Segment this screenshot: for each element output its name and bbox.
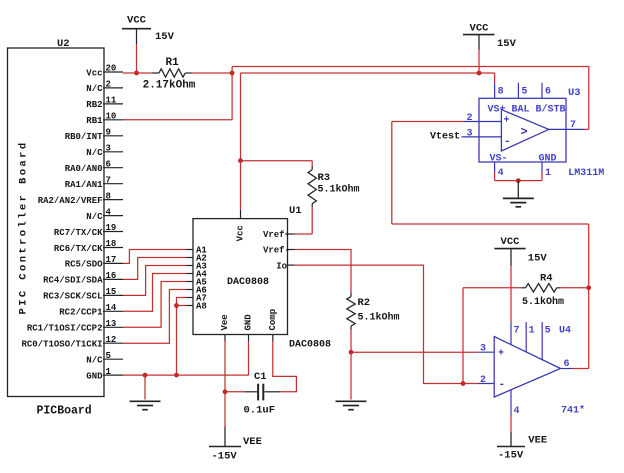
node X junction R1/RB1/comparator-output <box>230 71 235 76</box>
U1 Vcc pin stub <box>240 210 242 219</box>
U4 pin 3 stub+number <box>478 344 494 355</box>
svg-text:RC0/T1OSO/T1CKI: RC0/T1OSO/T1CKI <box>21 340 102 350</box>
wire down right edge to U3 pin 7 <box>588 67 590 130</box>
svg-text:VCC: VCC <box>127 15 147 27</box>
wire ground stem under R2 <box>350 352 352 399</box>
wire Vcc pin20 to R1 left <box>123 72 152 74</box>
svg-text:C1: C1 <box>254 371 267 383</box>
svg-text:LM311M: LM311M <box>568 168 604 179</box>
wire VCC2 corner down to U3 pin 8 <box>494 73 496 83</box>
U2 pin 5 N/C <box>86 351 123 366</box>
U1 pin Vref+ stub+label <box>263 230 295 240</box>
svg-text:5.1kOhm: 5.1kOhm <box>522 296 564 308</box>
U1 pin A2 stub+label <box>187 254 207 264</box>
U4 pin 1 line+number <box>526 322 534 352</box>
svg-text:RC7/TX/CK: RC7/TX/CK <box>54 228 103 238</box>
wire RC4 to A2 <box>123 258 187 280</box>
U2 pin 6 RA0/AN0 <box>65 159 123 174</box>
U2 pin 8 RA2/AN2/VREF <box>38 191 123 206</box>
svg-text:RC4/SDI/SDA: RC4/SDI/SDA <box>43 276 103 286</box>
svg-text:1: 1 <box>106 367 112 377</box>
wire node X down to RB1 wire <box>231 73 233 120</box>
node junction R4 left / U4 pin2 <box>461 381 466 386</box>
U2 pin 17 RC5/SDO <box>65 255 123 270</box>
svg-text:741*: 741* <box>561 405 585 417</box>
svg-text:15V: 15V <box>497 38 517 50</box>
svg-text:N/C: N/C <box>86 356 103 366</box>
U1 pin Io stub+label <box>276 261 295 271</box>
svg-text:R2: R2 <box>358 297 371 309</box>
wire VCC2 net vertical at x=240.5 <box>240 73 242 161</box>
U3 pin 3 stub+number <box>462 129 502 140</box>
wire R3 bottom to Vref+ corner <box>311 207 313 234</box>
svg-text:+: + <box>504 116 510 127</box>
svg-text:1: 1 <box>529 325 535 336</box>
wire down at x=391.8 <box>391 122 393 225</box>
svg-text:15: 15 <box>106 287 117 297</box>
wire across to right edge <box>392 223 589 225</box>
svg-text:1: 1 <box>545 168 551 179</box>
svg-text:18: 18 <box>106 239 117 249</box>
wire junction to R3 top <box>241 160 313 162</box>
U1 pin A7 stub+label <box>187 294 207 304</box>
U3 triangle symbol <box>501 110 548 151</box>
svg-text:-: - <box>504 136 511 148</box>
svg-text:5.1kOhm: 5.1kOhm <box>358 312 400 324</box>
wire up to U1 GND pin <box>248 341 250 375</box>
wire Vref- to R2 top <box>295 250 351 293</box>
U1 pin A1 stub+label <box>187 246 208 256</box>
svg-text:Comp: Comp <box>268 309 278 331</box>
svg-text:RC6/TX/CK: RC6/TX/CK <box>54 244 103 254</box>
wire into Vref+ pin <box>295 233 312 235</box>
svg-text:2: 2 <box>480 375 486 386</box>
svg-text:N/C: N/C <box>86 148 103 158</box>
wire A8 stub to ground-tie <box>177 305 187 307</box>
svg-text:9: 9 <box>106 128 111 138</box>
svg-text:RC1/T1OSI/CCP2: RC1/T1OSI/CCP2 <box>27 324 103 334</box>
svg-text:19: 19 <box>106 223 117 233</box>
wire RC3 to A3 <box>123 266 187 296</box>
PIC controller board U2 box <box>8 48 105 397</box>
svg-text:N/C: N/C <box>86 212 103 222</box>
power symbol VEE -15V right <box>497 432 547 462</box>
wire node X up to comparator output line <box>231 67 233 74</box>
svg-text:U3: U3 <box>568 87 581 99</box>
node junction U3 ground <box>516 178 521 183</box>
svg-text:VEE: VEE <box>243 436 262 448</box>
U3 ground stem <box>517 181 519 199</box>
U2 pin 12 RC0/T1OSO/T1CKI <box>21 335 123 350</box>
U2 pin 15 RC3/SCK/SCL <box>43 287 123 302</box>
U2 pin 2 N/C <box>86 80 123 95</box>
svg-text:3: 3 <box>480 344 486 355</box>
U2 pin 4 N/C <box>86 207 123 222</box>
svg-text:7: 7 <box>106 175 111 185</box>
wire R1 right to node X <box>192 72 233 74</box>
U2 pin 3 N/C <box>86 144 123 159</box>
svg-text:Io: Io <box>276 261 287 271</box>
U2 pin 16 RC4/SDI/SDA <box>43 271 123 286</box>
svg-text:5: 5 <box>545 325 551 336</box>
wire U3 pin2 left run <box>392 121 464 123</box>
power symbol VCC top-left 15V <box>122 15 175 45</box>
svg-text:-: - <box>499 379 506 391</box>
svg-text:U4: U4 <box>559 325 571 336</box>
svg-text:VCC: VCC <box>501 236 521 248</box>
svg-text:U2: U2 <box>57 38 70 50</box>
wire VCC1 stem down to Vcc pin net <box>136 44 138 73</box>
svg-text:8: 8 <box>106 191 111 201</box>
svg-text:2: 2 <box>106 80 111 90</box>
node junction ground-tie on GND wire <box>174 373 179 378</box>
wire U4 pin4 down to VEE <box>510 415 512 432</box>
wire U3 pin7 to loop corner <box>584 128 589 130</box>
wire RC2 to A4 <box>123 274 187 312</box>
wire R3 top lead <box>311 161 313 166</box>
wire RC1 to A5 <box>123 282 187 328</box>
U2 pin 11 RB2 <box>86 96 123 111</box>
svg-text:Vref+: Vref+ <box>263 230 290 240</box>
wire U3 pin4 to pin1 ground run <box>495 180 542 182</box>
node junction R4 right / U4 output <box>586 285 591 290</box>
svg-text:0.1uF: 0.1uF <box>244 405 276 417</box>
svg-text:GND: GND <box>86 371 103 381</box>
U2 pin 19 RC7/TX/CK <box>54 223 123 238</box>
svg-text:GND: GND <box>244 314 254 331</box>
wire C1 left from Vee junction <box>225 391 245 393</box>
U1 pin A8 stub+label <box>187 302 207 312</box>
U4 pin 2 stub+number <box>478 375 494 386</box>
node junction VCC1 / Vcc pin 20 <box>134 71 139 76</box>
svg-text:RB1: RB1 <box>86 116 103 126</box>
svg-text:RC5/SDO: RC5/SDO <box>65 260 103 270</box>
wire down to U4 output <box>588 288 590 369</box>
svg-text:7: 7 <box>514 325 520 336</box>
svg-text:4: 4 <box>498 168 504 179</box>
svg-text:6: 6 <box>545 87 551 98</box>
svg-text:6: 6 <box>106 159 111 169</box>
node junction ground symbol tap <box>143 373 148 378</box>
wire VCC2 stem down <box>478 50 480 73</box>
node junction VCC2 supply tap <box>477 71 482 76</box>
svg-text:16: 16 <box>106 271 117 281</box>
U2 pin 18 RC6/TX/CK <box>54 239 123 254</box>
svg-text:VEE: VEE <box>528 434 547 446</box>
svg-text:VS-: VS- <box>490 154 508 165</box>
wire junction down to U1 Vcc pin <box>240 161 242 210</box>
svg-text:15V: 15V <box>155 31 175 43</box>
svg-text:5: 5 <box>106 351 111 361</box>
wire ground node to U4 pin 3 <box>351 351 478 353</box>
U2 pin 10 RB1 <box>86 112 123 127</box>
resistor R2 zigzag vertical <box>347 293 355 330</box>
node junction Vee / C1 left <box>223 389 228 394</box>
svg-text:11: 11 <box>106 96 117 106</box>
svg-text:PIC Controller Board: PIC Controller Board <box>18 140 30 314</box>
svg-text:2: 2 <box>467 113 473 124</box>
U1 pin Comp stub+vertical label <box>268 309 278 341</box>
capacitor C1 plates <box>245 384 281 401</box>
node junction A8 on ground-tie <box>174 303 179 308</box>
svg-text:RA0/AN0: RA0/AN0 <box>65 164 103 174</box>
wire R4 right lead <box>561 287 589 289</box>
svg-text:4: 4 <box>514 406 520 417</box>
svg-text:5.1kOhm: 5.1kOhm <box>318 184 360 196</box>
svg-text:Vcc: Vcc <box>236 225 246 241</box>
svg-text:+: + <box>498 349 504 360</box>
U1 pin A5 stub+label <box>187 278 207 288</box>
U3 pin 6 line+number <box>542 83 551 99</box>
U1 pin A3 stub+label <box>187 262 207 272</box>
U3 pin 1 line+number <box>542 162 551 179</box>
svg-text:>: > <box>521 125 528 139</box>
svg-text:8: 8 <box>498 87 504 98</box>
wire C1 right to Comp pin <box>273 341 297 392</box>
svg-text:7: 7 <box>570 120 576 131</box>
wire RC5 to A1 <box>123 250 187 264</box>
wire VCC2 net horizontal run <box>241 72 495 74</box>
svg-text:10: 10 <box>106 112 117 122</box>
U4 pin 6 stub+number <box>561 359 573 370</box>
U4 pin 5 line+number <box>542 322 550 360</box>
U1 pin GND stub+vertical label <box>244 314 254 341</box>
U1 pin Vref- stub+label <box>263 246 295 256</box>
resistor R4 zigzag <box>522 284 561 292</box>
svg-text:R3: R3 <box>318 172 331 184</box>
U4 pin 4 line+number <box>511 390 520 417</box>
svg-text:14: 14 <box>106 303 117 313</box>
DAC0808 U1 box <box>193 219 288 335</box>
wire down right edge to R4 right <box>588 224 590 288</box>
wire R4 left vertical to U4 pin2 <box>462 288 464 384</box>
wire GND pin1 horizontal <box>123 374 249 376</box>
svg-text:-15V: -15V <box>498 450 524 462</box>
svg-text:12: 12 <box>106 335 117 345</box>
U2 pin 20 Vcc <box>86 64 123 79</box>
svg-text:2.17kOhm: 2.17kOhm <box>143 80 196 92</box>
U2 pin 1 GND <box>86 367 123 382</box>
wire U3 pin4 down <box>494 172 496 181</box>
svg-text:15V: 15V <box>528 253 548 265</box>
resistor R1 zigzag <box>152 69 192 77</box>
U2 pin 13 RC1/T1OSI/CCP2 <box>27 319 123 334</box>
ground symbol under R2 <box>336 401 367 409</box>
wire VCC3 stem to U4 pin 7 <box>510 266 512 322</box>
svg-text:N/C: N/C <box>86 84 103 94</box>
svg-text:RB0/INT: RB0/INT <box>65 132 103 142</box>
svg-text:Vref-: Vref- <box>263 246 290 256</box>
svg-text:R1: R1 <box>166 57 180 69</box>
svg-text:20: 20 <box>106 64 117 74</box>
U3 pin 7 stub+number <box>549 120 584 131</box>
ground symbol under GND wire <box>130 401 161 409</box>
svg-text:VS+ BAL B/STB: VS+ BAL B/STB <box>488 103 566 115</box>
svg-text:Vcc: Vcc <box>86 68 102 78</box>
svg-text:RC2/CCP1: RC2/CCP1 <box>59 308 103 318</box>
svg-text:R4: R4 <box>540 273 553 285</box>
svg-text:3: 3 <box>467 129 473 140</box>
wire A7 to ground-tie vertical <box>177 298 187 376</box>
wire comparator output top run to right <box>232 66 589 68</box>
svg-text:5: 5 <box>521 87 527 98</box>
wire U4 output to right edge <box>573 368 589 370</box>
U4 pin 7 line+number <box>511 322 520 345</box>
U2 pin 9 RB0/INT <box>65 128 123 143</box>
svg-text:VCC: VCC <box>470 23 490 35</box>
wire RC0 to A6 <box>123 290 187 344</box>
power symbol VEE -15V left <box>209 427 262 463</box>
wire Io to U4 pin 2 <box>295 265 478 383</box>
svg-text:RA2/AN2/VREF: RA2/AN2/VREF <box>38 196 103 206</box>
U3 pin 2 stub+number <box>464 113 501 124</box>
U1 pin A6 stub+label <box>187 286 207 296</box>
svg-text:A8: A8 <box>196 302 207 312</box>
U3 pin 4 line+number <box>495 162 504 179</box>
U2 pin 14 RC2/CCP1 <box>59 303 123 318</box>
svg-text:4: 4 <box>106 207 112 217</box>
wire R4 left lead run <box>463 287 522 289</box>
wire U1 Vee pin down <box>224 341 226 427</box>
U3 pin 8 line+number <box>495 83 504 99</box>
node junction R3 top / U1 Vcc <box>238 158 243 163</box>
svg-text:Vtest: Vtest <box>430 131 460 142</box>
svg-text:Vee: Vee <box>220 314 230 330</box>
svg-text:U1: U1 <box>289 205 302 217</box>
svg-text:RB2: RB2 <box>86 100 102 110</box>
power symbol VCC top-right 15V <box>463 23 517 50</box>
ground symbol under U3 <box>503 198 534 206</box>
U3 pin 5 line+number <box>518 83 527 99</box>
U1 pin A4 stub+label <box>187 270 208 280</box>
svg-text:-15V: -15V <box>212 451 238 463</box>
svg-text:DAC0808: DAC0808 <box>289 340 331 351</box>
wire R2 bottom to ground node <box>350 330 352 352</box>
svg-text:PICBoard: PICBoard <box>37 405 92 418</box>
svg-text:3: 3 <box>106 144 111 154</box>
svg-text:13: 13 <box>106 319 117 329</box>
op-amp U4 triangle <box>494 337 560 398</box>
comparator U3 box <box>479 98 566 162</box>
U1 pin Vee stub+vertical label <box>220 314 230 341</box>
svg-text:RC3/SCK/SCL: RC3/SCK/SCL <box>43 292 102 302</box>
resistor R3 zigzag vertical <box>308 166 316 207</box>
U2 pin 7 RA1/AN1 <box>65 175 123 190</box>
power symbol VCC above U4 15V <box>494 236 547 266</box>
svg-text:DAC0808: DAC0808 <box>227 277 269 288</box>
svg-text:GND: GND <box>539 154 557 165</box>
svg-text:17: 17 <box>106 255 117 265</box>
node junction R2 / U4 pin3 / ground <box>349 350 354 355</box>
wire ground stem <box>144 375 146 399</box>
svg-text:RA1/AN1: RA1/AN1 <box>65 180 103 190</box>
svg-text:6: 6 <box>564 359 570 370</box>
wire RB1 pin10 horizontal <box>123 119 232 121</box>
wire U3 pin1 down <box>541 172 543 181</box>
